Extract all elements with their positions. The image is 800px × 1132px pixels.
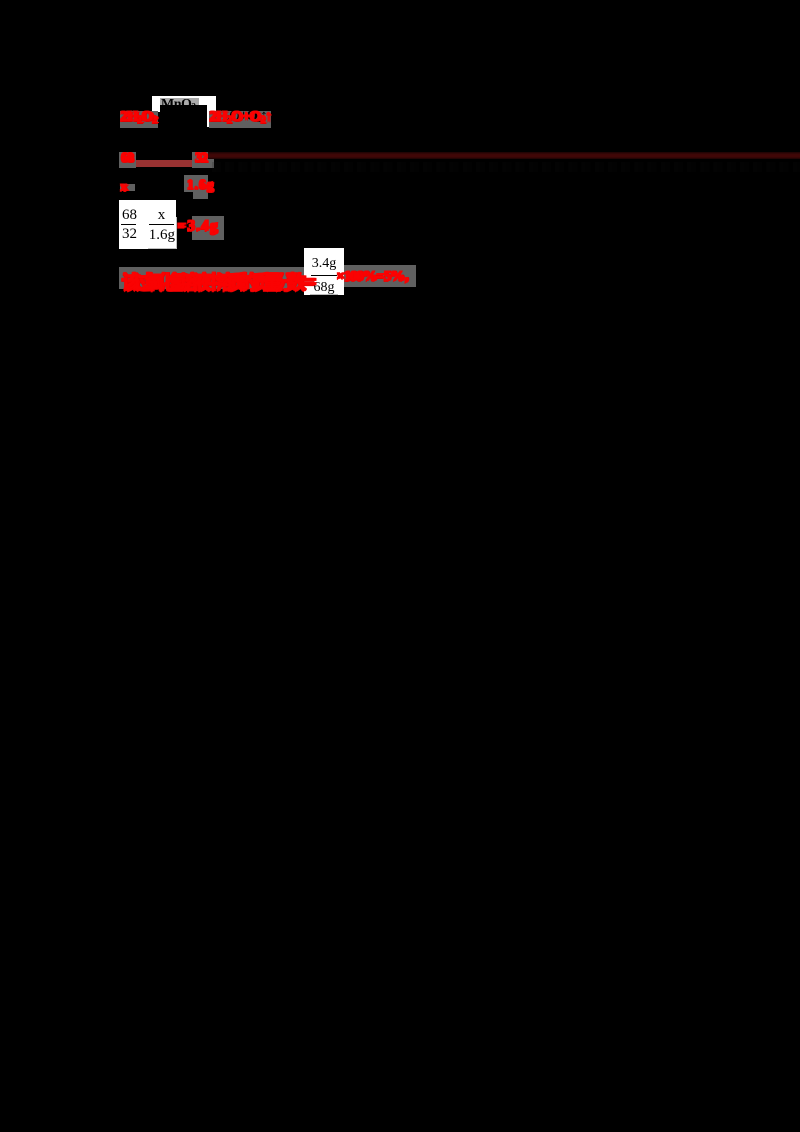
gray highlight behind MnO2 [160,98,199,105]
red answer x [120,179,127,195]
long dark red rule to right edge [208,152,800,159]
maroon overlap bar [136,160,193,167]
sub-box border around x/1.6g [148,217,178,250]
black underlying text 2H2O+O2 [210,108,267,125]
field shading behind x100%=5% [344,265,416,287]
field shading behind 68 [119,152,137,167]
red answer 32 [194,150,206,166]
black arrow block over equation box [160,105,207,128]
field shading behind 2H2O+O2 [209,111,272,128]
equation image white box (MnO2 over arrow) [152,96,217,127]
mass fraction white box [304,248,344,295]
proportion equation white box [119,200,177,249]
red answer 2H2O+O2 up [209,108,271,125]
red answer x100%=5% [336,267,414,285]
red answer 68 [120,150,132,166]
fraction x/1.6g [149,207,175,224]
field shading behind x [120,184,135,192]
catalyst label MnO2 [161,97,207,111]
fraction 68/32 [122,207,136,224]
red answer 2H2O2 [120,108,156,125]
black underlying text 2H2O2 [120,108,156,125]
field shading behind 2H2O2 [120,111,158,128]
red answer 1.6g [186,177,214,193]
field shading behind 1.6g lower [193,192,208,199]
black corner block [152,112,161,128]
field shading behind =3.4g [192,216,224,240]
field shading behind 1.6g upper [184,175,209,192]
red final sentence [121,267,310,294]
ghost text row under rule [212,162,800,173]
red answer =3.4g [177,217,218,235]
fraction 3.4g/68g [306,256,342,272]
field shading behind final sentence [119,267,305,289]
field shading behind 32 [192,152,214,167]
